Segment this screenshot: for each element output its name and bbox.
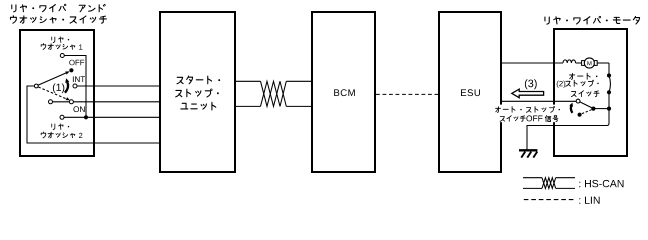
rotation arrow (2) bbox=[571, 105, 573, 113]
contact ON bbox=[69, 100, 73, 104]
legend LIN label bbox=[579, 197, 599, 204]
label auto-stop switch bbox=[569, 73, 574, 79]
title rear wiper motor bbox=[545, 17, 549, 24]
wire INT to start-stop unit bbox=[77, 85, 160, 87]
switch arm alternate position (dashed) bbox=[38, 87, 66, 99]
contact ON left bbox=[49, 100, 53, 104]
white backing for OFF-signal label bbox=[494, 105, 562, 123]
legend HS-CAN label bbox=[579, 180, 623, 187]
wire rear-washer-1 to washer net bbox=[64, 56, 86, 118]
junction cam lower bbox=[607, 90, 611, 94]
auto-stop alternate position (dashed) bbox=[582, 110, 592, 114]
signal flow arrow (3) bbox=[512, 89, 544, 98]
wire ON to start-stop unit bbox=[51, 101, 161, 103]
legend LIN symbol bbox=[524, 199, 574, 201]
auto-stop switch arm bbox=[580, 102, 592, 108]
wire cam switch upper segment bbox=[608, 63, 610, 76]
ground bbox=[519, 149, 537, 151]
cam switch arm (bowed) bbox=[609, 76, 610, 93]
motor M1 bbox=[584, 58, 594, 68]
contact OFF (parked) bbox=[69, 68, 73, 72]
label OFF bbox=[69, 60, 84, 66]
label INT bbox=[73, 76, 85, 82]
wire switch common to start-stop unit bbox=[27, 86, 160, 143]
label BCM bbox=[334, 89, 355, 96]
junction cam upper bbox=[607, 73, 611, 77]
title line2 bbox=[10, 16, 16, 23]
label ESU bbox=[461, 89, 480, 96]
motor M1 brush right bbox=[594, 61, 597, 66]
LIN wire BCM-ESU (dashed) bbox=[376, 93, 439, 95]
junction washer1/washer2 net bbox=[84, 115, 88, 119]
auto-stop arm contact dot bbox=[591, 107, 595, 111]
motor M1 brush left bbox=[582, 61, 585, 66]
label (2) bbox=[557, 81, 566, 88]
wire ESU auto-stop OFF signal bbox=[501, 100, 576, 102]
label rear washer 1 bbox=[52, 37, 55, 43]
junction auto-stop contact bbox=[607, 107, 611, 111]
HS-CAN twisted pair top wire bbox=[235, 80, 312, 82]
wire washer to start-stop unit bbox=[62, 116, 160, 118]
auto-stop lower contact bbox=[578, 113, 582, 117]
wire motor to cam switch bbox=[597, 62, 609, 64]
HS-CAN twist bbox=[261, 81, 287, 106]
rotation arrow (1) bbox=[65, 82, 68, 93]
rear wiper motor box bbox=[554, 29, 627, 156]
BCM box bbox=[312, 12, 375, 172]
legend HS-CAN symbol bbox=[523, 178, 575, 189]
label rear washer 2 bbox=[52, 124, 55, 130]
switch arm (to OFF) bbox=[38, 73, 66, 85]
switch pivot bbox=[34, 84, 38, 88]
start-stop unit box U1 bbox=[160, 12, 235, 172]
wire ESU to motor bbox=[501, 62, 563, 64]
ESU box bbox=[439, 12, 501, 172]
HS-CAN twisted pair bottom wire bbox=[235, 105, 312, 107]
label (1) bbox=[53, 83, 64, 93]
contact INT bbox=[73, 84, 77, 88]
auto-stop switch pivot bbox=[576, 99, 580, 103]
label ON bbox=[73, 106, 84, 112]
wiper/washer switch box bbox=[20, 30, 94, 156]
contact rear washer 1 bbox=[60, 54, 64, 58]
title rear wiper and washer switch line1 bbox=[12, 5, 16, 12]
label auto-stop switch OFF signal bbox=[496, 107, 501, 113]
wire to ground via box bottom bbox=[527, 92, 609, 149]
thermal coil bbox=[563, 60, 576, 63]
label start-stop unit bbox=[177, 77, 183, 83]
label (3) bbox=[525, 79, 537, 89]
contact rear washer 2 bbox=[60, 115, 64, 119]
wire auto-stop arm contact bbox=[593, 108, 609, 110]
